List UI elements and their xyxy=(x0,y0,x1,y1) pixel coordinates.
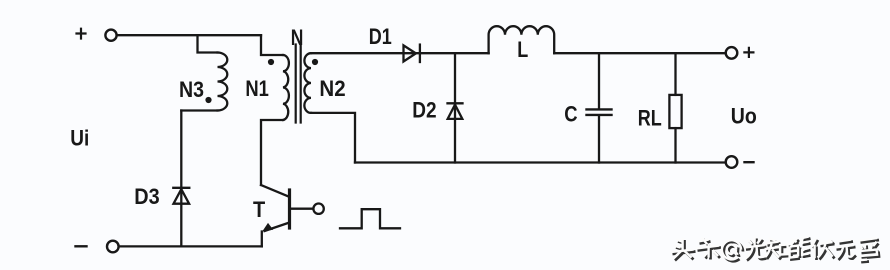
diode D3 xyxy=(173,188,189,204)
input plus sign xyxy=(77,29,86,39)
wire N2 top rail xyxy=(311,52,420,54)
capacitor C xyxy=(587,109,612,115)
wire RL branch bottom xyxy=(674,128,676,162)
output plus terminal xyxy=(726,47,738,59)
resistor RL xyxy=(669,95,681,128)
transistor T emitter xyxy=(265,223,290,232)
node N3 dot xyxy=(205,97,211,103)
diode D2 xyxy=(448,103,463,119)
svg-text:RL: RL xyxy=(638,105,662,130)
svg-text:D3: D3 xyxy=(134,184,159,209)
svg-text:N: N xyxy=(291,25,304,50)
transistor T emitter arrow xyxy=(262,223,273,231)
wire N3 bottom xyxy=(181,109,217,111)
wire bottom rail secondary xyxy=(355,161,726,163)
wire D3 branch xyxy=(180,111,182,247)
winding N1 xyxy=(283,55,289,120)
wire D1 to L xyxy=(420,52,489,54)
svg-text:N2: N2 xyxy=(319,76,345,101)
wire RL branch top xyxy=(674,53,676,95)
wire top rail primary xyxy=(117,34,261,36)
svg-text:L: L xyxy=(517,37,528,62)
diode D1 xyxy=(404,45,420,62)
svg-text:T: T xyxy=(253,197,266,222)
wire capacitor branch top xyxy=(598,53,600,109)
transformer core xyxy=(296,45,301,123)
inductor L xyxy=(489,26,555,53)
wire D2 branch xyxy=(454,53,456,162)
svg-text:C: C xyxy=(564,102,577,127)
transistor T collector xyxy=(261,185,289,197)
input minus sign xyxy=(76,245,87,247)
wire N1 top xyxy=(261,35,283,55)
node N2 dot xyxy=(312,59,318,65)
svg-text:N1: N1 xyxy=(245,76,269,101)
wire N2 bottom xyxy=(311,113,355,163)
wire emitter down xyxy=(261,232,263,247)
svg-text:Uo: Uo xyxy=(731,103,757,128)
wire N3 branch xyxy=(198,35,218,52)
svg-text:Ui: Ui xyxy=(70,126,89,151)
winding N2 xyxy=(304,53,311,113)
input plus terminal xyxy=(105,30,116,41)
transistor T base lead xyxy=(291,208,313,210)
output minus sign xyxy=(745,161,754,163)
winding N3 xyxy=(218,53,228,111)
node N1 dot xyxy=(268,59,274,65)
wire L to output plus xyxy=(554,52,726,54)
wire capacitor branch bottom xyxy=(598,115,600,162)
svg-text:D1: D1 xyxy=(369,24,392,49)
output plus sign xyxy=(744,48,753,57)
pulse waveform xyxy=(340,209,400,228)
transistor T base terminal xyxy=(313,204,323,214)
input minus terminal xyxy=(107,241,119,253)
wire N1 bottom to collector xyxy=(261,120,283,185)
watermark 头条@光知能伏无弯 xyxy=(671,237,879,262)
output minus terminal xyxy=(726,156,738,168)
svg-text:D2: D2 xyxy=(412,98,436,123)
wire bottom rail primary xyxy=(119,245,262,247)
svg-text:N3: N3 xyxy=(179,77,204,102)
transistor T base bar xyxy=(288,190,291,228)
